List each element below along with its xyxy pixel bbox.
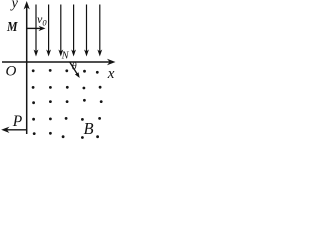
svg-text:B: B: [84, 119, 94, 138]
y-axis: [24, 1, 30, 134]
svg-text:x: x: [107, 66, 115, 82]
x-axis: [2, 59, 116, 65]
svg-text:v0: v0: [37, 12, 47, 28]
field arrow E6: [97, 5, 102, 57]
velocity arrow at N (into field): [70, 62, 80, 78]
svg-text:P: P: [12, 113, 23, 130]
svg-text:θ: θ: [72, 62, 77, 73]
arrow at P (pointing left): [1, 127, 26, 133]
svg-text:y: y: [10, 0, 19, 12]
svg-text:M: M: [6, 20, 18, 35]
svg-text:O: O: [6, 64, 17, 80]
field arrow E1: [34, 5, 39, 57]
velocity arrow v0 at M: [27, 26, 46, 31]
field arrow E2: [46, 5, 51, 57]
field arrow E4: [71, 5, 76, 57]
svg-text:N: N: [61, 50, 70, 61]
field arrow E5: [84, 5, 89, 57]
magnetic field dots (B out of page): [32, 69, 103, 139]
field arrow E3: [58, 5, 63, 57]
